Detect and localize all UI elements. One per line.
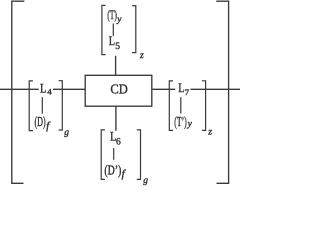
right group closing bracket [202, 81, 206, 131]
outer left polymer bracket [12, 1, 25, 183]
bond (T)y to L5 [112, 23, 114, 36]
outer right polymer bracket [216, 1, 228, 183]
wire: bond L4 group to CD box [53, 88, 85, 90]
bond L4 to (D)f [41, 97, 43, 113]
wire: main chain bond, left end segment [0, 88, 39, 90]
svg-text:CD: CD [110, 83, 127, 98]
left group closing bracket [59, 81, 63, 130]
bottom group opening bracket [101, 130, 105, 180]
bond L7 to (T')y [180, 97, 182, 113]
top group closing bracket [132, 6, 136, 53]
svg-text:g: g [143, 176, 148, 186]
svg-text:L: L [178, 80, 184, 95]
wire: bond CD box to L6 group [115, 106, 117, 131]
svg-text:L: L [109, 33, 115, 48]
svg-text:(T): (T) [107, 7, 117, 22]
svg-text:7: 7 [185, 87, 190, 97]
svg-text:g: g [64, 128, 69, 138]
wire: bond L5 group to CD box [115, 56, 117, 76]
svg-text:L: L [40, 81, 46, 96]
svg-text:z: z [207, 128, 212, 138]
svg-text:z: z [139, 51, 144, 61]
right group opening bracket [169, 81, 173, 130]
svg-text:4: 4 [47, 87, 52, 97]
CD core box [85, 75, 152, 106]
left group opening bracket [29, 81, 33, 131]
bond L6 to (D')f [113, 148, 115, 160]
svg-text:y: y [116, 15, 122, 25]
svg-text:(D): (D) [35, 114, 46, 129]
svg-text:6: 6 [116, 138, 121, 148]
svg-text:(D’): (D’) [104, 163, 121, 178]
bottom group closing bracket [137, 130, 141, 180]
svg-text:y: y [187, 119, 193, 129]
wire: main chain bond, right end segment [191, 88, 241, 90]
svg-text:5: 5 [115, 42, 120, 52]
top group opening bracket [102, 5, 106, 54]
svg-text:(T’): (T’) [174, 114, 186, 129]
wire: bond CD box to L7 group [152, 88, 175, 90]
